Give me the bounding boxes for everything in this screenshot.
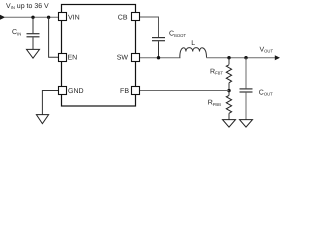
svg-text:RFBB: RFBB [208, 100, 221, 107]
svg-text:RFBT: RFBT [210, 68, 223, 75]
svg-text:GND: GND [68, 88, 84, 95]
svg-text:CB: CB [118, 14, 128, 21]
svg-text:VIN: VIN [68, 14, 80, 21]
svg-text:L: L [191, 40, 195, 47]
svg-text:SW: SW [117, 55, 129, 62]
svg-text:FB: FB [120, 88, 129, 95]
svg-text:COUT: COUT [259, 89, 273, 96]
svg-text:CBOOT: CBOOT [169, 31, 186, 38]
svg-text:CIN: CIN [12, 29, 21, 36]
svg-text:EN: EN [68, 55, 78, 62]
svg-text:VOUT: VOUT [260, 46, 274, 53]
svg-text:VIN up to 36 V: VIN up to 36 V [6, 3, 49, 10]
